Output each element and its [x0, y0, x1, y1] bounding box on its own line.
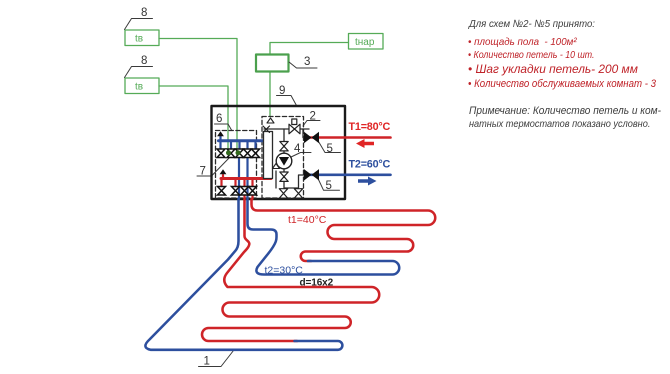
- svg-text:2: 2: [310, 111, 316, 123]
- svg-text:5: 5: [327, 143, 333, 155]
- svg-text:tнар: tнар: [355, 37, 375, 48]
- svg-text:5: 5: [326, 180, 332, 192]
- svg-text:t1=40°C: t1=40°C: [288, 214, 327, 226]
- svg-text:T1=80°C: T1=80°C: [349, 121, 391, 133]
- svg-text:4: 4: [294, 143, 301, 155]
- svg-text:3: 3: [304, 56, 310, 68]
- svg-text:8: 8: [141, 7, 147, 19]
- svg-text:7: 7: [200, 166, 206, 178]
- svg-text:9: 9: [279, 85, 285, 97]
- svg-text:d=16x2: d=16x2: [300, 278, 334, 289]
- svg-text:tв: tв: [135, 82, 143, 93]
- svg-text:1: 1: [204, 356, 210, 368]
- svg-text:8: 8: [141, 55, 147, 67]
- svg-text:t2=30°C: t2=30°C: [265, 265, 304, 277]
- svg-text:6: 6: [216, 113, 222, 125]
- svg-text:T2=60°C: T2=60°C: [349, 159, 391, 171]
- svg-text:tв: tв: [135, 34, 143, 45]
